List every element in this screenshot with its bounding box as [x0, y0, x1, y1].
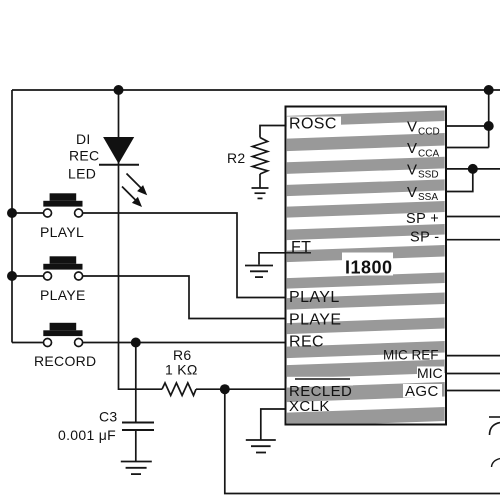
svg-text:DI: DI [76, 131, 91, 147]
wire VSSD pin to right edge [446, 168, 500, 170]
svg-text:RECORD: RECORD [34, 353, 96, 369]
svg-text:CCA: CCA [418, 149, 439, 160]
LED light arrow 2 [122, 187, 142, 208]
svg-text:C3: C3 [99, 409, 118, 425]
wire C3 to ground [135, 431, 137, 462]
wire left rail [11, 90, 13, 343]
svg-text:REC: REC [289, 334, 324, 351]
svg-text:PLAYL: PLAYL [289, 289, 340, 306]
svg-text:0.001 μF: 0.001 μF [58, 427, 116, 443]
resistor R2 [252, 138, 267, 175]
ground for C3 [121, 462, 152, 475]
node REC C3 [131, 338, 141, 348]
LED light arrow 1 [127, 174, 148, 196]
svg-text:V: V [407, 161, 417, 178]
svg-text:REC: REC [69, 148, 99, 164]
wire FT pin to ground [259, 253, 286, 265]
wire R2 to ground [259, 174, 261, 188]
wire rail to RECORD button [12, 342, 44, 344]
pushbutton RECORD [43, 323, 82, 347]
node VSSD [468, 164, 478, 174]
svg-text:SSA: SSA [418, 192, 438, 203]
wire top rail [12, 89, 500, 91]
capacitor C3 [122, 423, 154, 431]
resistor R6 [162, 383, 196, 396]
wire VCCD node to top rail and VCCA [488, 90, 490, 148]
wire ROSC pin to R2 [260, 126, 286, 138]
wire R6 right to RECLED pin [196, 388, 286, 390]
wire VSSA pin to VSSD node [446, 169, 473, 192]
svg-text:R2: R2 [227, 150, 246, 166]
svg-text:I1800: I1800 [345, 258, 393, 278]
wire PLAYL button to PLAYL pin [83, 213, 286, 298]
svg-text:SSD: SSD [418, 170, 439, 181]
wire LED branch vertical down to R6 [119, 90, 163, 389]
ground for XCLK [246, 440, 276, 453]
wire rail to PLAYE button [12, 275, 44, 277]
wire XCLK pin to ground [261, 409, 286, 440]
svg-text:V: V [407, 140, 417, 157]
microphone fragment top [489, 417, 500, 435]
ground for R2 [252, 188, 269, 198]
node VCC top [484, 85, 494, 95]
svg-text:PLAYE: PLAYE [40, 287, 86, 303]
svg-text:ROSC: ROSC [289, 116, 337, 133]
node rail PLAYL [7, 208, 17, 218]
svg-text:LED: LED [68, 166, 96, 182]
node LED top [114, 85, 124, 95]
ground for FT [245, 266, 273, 278]
pushbutton PLAYL [43, 193, 82, 217]
svg-text:PLAYL: PLAYL [40, 224, 84, 240]
svg-text:CCD: CCD [418, 127, 440, 138]
pin label boxes [287, 117, 444, 398]
wire VCCD pin to node [446, 125, 489, 127]
svg-text:1 KΩ: 1 KΩ [165, 362, 198, 378]
svg-text:MIC REF: MIC REF [383, 348, 439, 363]
svg-text:PLAYE: PLAYE [289, 312, 341, 329]
node rail PLAYE [7, 271, 17, 281]
unlabeled pin overline [295, 378, 350, 380]
svg-text:XCLK: XCLK [289, 398, 330, 415]
wire REC node down to C3 [135, 343, 137, 422]
svg-text:SP -: SP - [410, 230, 440, 246]
node VCCD [484, 121, 494, 131]
svg-text:V: V [407, 184, 417, 201]
LED D1 [99, 137, 139, 165]
svg-text:AGC: AGC [405, 383, 439, 400]
wire VCCA pin [446, 147, 489, 149]
wire MIC REF pin to right edge [446, 355, 500, 357]
wire SP+ pin to right edge [446, 216, 500, 218]
node RECLED R6 [220, 384, 230, 394]
wire RECORD button to REC pin [83, 342, 286, 344]
wire SP- pin to right edge [446, 239, 500, 241]
wire MIC pin to right edge [446, 373, 500, 375]
pushbutton PLAYE [43, 256, 82, 280]
svg-text:SP +: SP + [406, 211, 439, 227]
wire RECLED node down and bottom rail [225, 389, 500, 493]
wire PLAYE button to PLAYE pin [83, 276, 286, 319]
pin FT underline [286, 252, 311, 254]
svg-text:MIC: MIC [417, 365, 443, 381]
wire AGC pin to right edge [446, 390, 500, 392]
microphone fragment bottom [492, 459, 500, 468]
svg-text:V: V [407, 119, 417, 136]
wire rail to PLAYL button [12, 212, 44, 214]
